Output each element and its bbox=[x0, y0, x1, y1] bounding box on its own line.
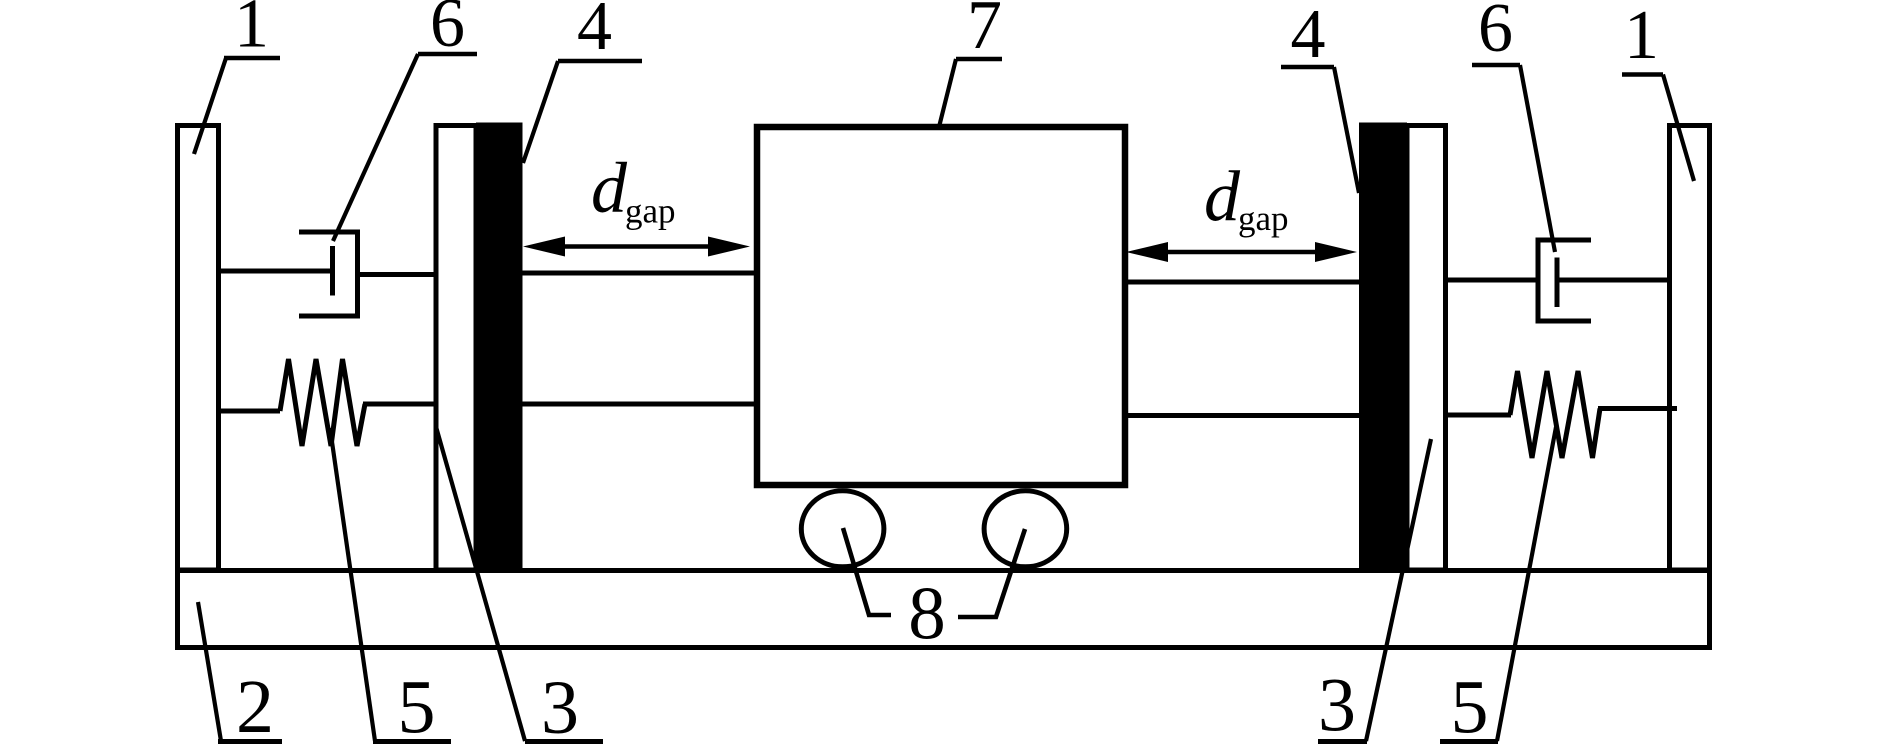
right pad 4 (black) bbox=[1359, 123, 1407, 571]
spring 5 left zigzag bbox=[280, 359, 365, 446]
right rod top wire bbox=[1122, 280, 1362, 285]
left rod top wire bbox=[520, 271, 760, 276]
left rod bottom wire bbox=[520, 402, 760, 407]
svg-text:gap: gap bbox=[625, 192, 676, 231]
svg-text:5: 5 bbox=[1451, 666, 1489, 744]
svg-text:3: 3 bbox=[1318, 664, 1356, 744]
base plate 2 (foundation) bbox=[178, 571, 1710, 648]
svg-text:1: 1 bbox=[1624, 0, 1659, 74]
damper 6 left cylinder bracket bbox=[299, 232, 358, 316]
mass block 7 bbox=[757, 127, 1125, 485]
svg-text:d: d bbox=[591, 148, 628, 228]
svg-text:4: 4 bbox=[577, 0, 612, 65]
right rod bottom wire bbox=[1122, 413, 1362, 418]
right bumper plate 3 (white) bbox=[1407, 126, 1446, 571]
d_gap dimension arrow left bbox=[523, 237, 750, 257]
svg-text:gap: gap bbox=[1238, 199, 1289, 238]
damper 6 left: wall-to-piston wire bbox=[218, 269, 335, 274]
svg-text:4: 4 bbox=[1291, 0, 1326, 73]
left bumper plate 3 (white) bbox=[436, 126, 476, 571]
svg-text:1: 1 bbox=[234, 0, 269, 63]
spring 5 left: wall wire bbox=[218, 409, 280, 414]
svg-text:3: 3 bbox=[541, 666, 579, 744]
svg-text:d: d bbox=[1204, 157, 1241, 237]
svg-text:6: 6 bbox=[1478, 0, 1513, 67]
spring 5 right: plate wire bbox=[1444, 413, 1511, 418]
damper 6 right cylinder bracket bbox=[1538, 240, 1591, 321]
damper 6 right: plate-to-cylinder wire bbox=[1444, 278, 1540, 283]
wheel 8 left bbox=[801, 491, 884, 567]
damper 6 left piston bbox=[330, 246, 335, 296]
spring 5 right zigzag bbox=[1510, 371, 1600, 458]
right wall 1 bbox=[1670, 126, 1710, 571]
spring 5 right: wall wire bbox=[1598, 406, 1677, 411]
left wall 1 bbox=[178, 126, 219, 571]
damper 6 right: piston-to-wall wire bbox=[1555, 278, 1671, 283]
svg-text:2: 2 bbox=[236, 665, 274, 744]
svg-text:8: 8 bbox=[908, 573, 946, 656]
damper 6 right piston bbox=[1555, 258, 1560, 308]
spring 5 left: plate wire bbox=[363, 402, 438, 407]
left pad 4 (black) bbox=[476, 123, 523, 571]
svg-text:5: 5 bbox=[398, 666, 436, 744]
d_gap dimension arrow right bbox=[1126, 242, 1357, 262]
svg-text:7: 7 bbox=[967, 0, 1002, 64]
wheel 8 right bbox=[984, 491, 1067, 567]
damper 6 left: cylinder-to-plate wire bbox=[358, 272, 439, 277]
